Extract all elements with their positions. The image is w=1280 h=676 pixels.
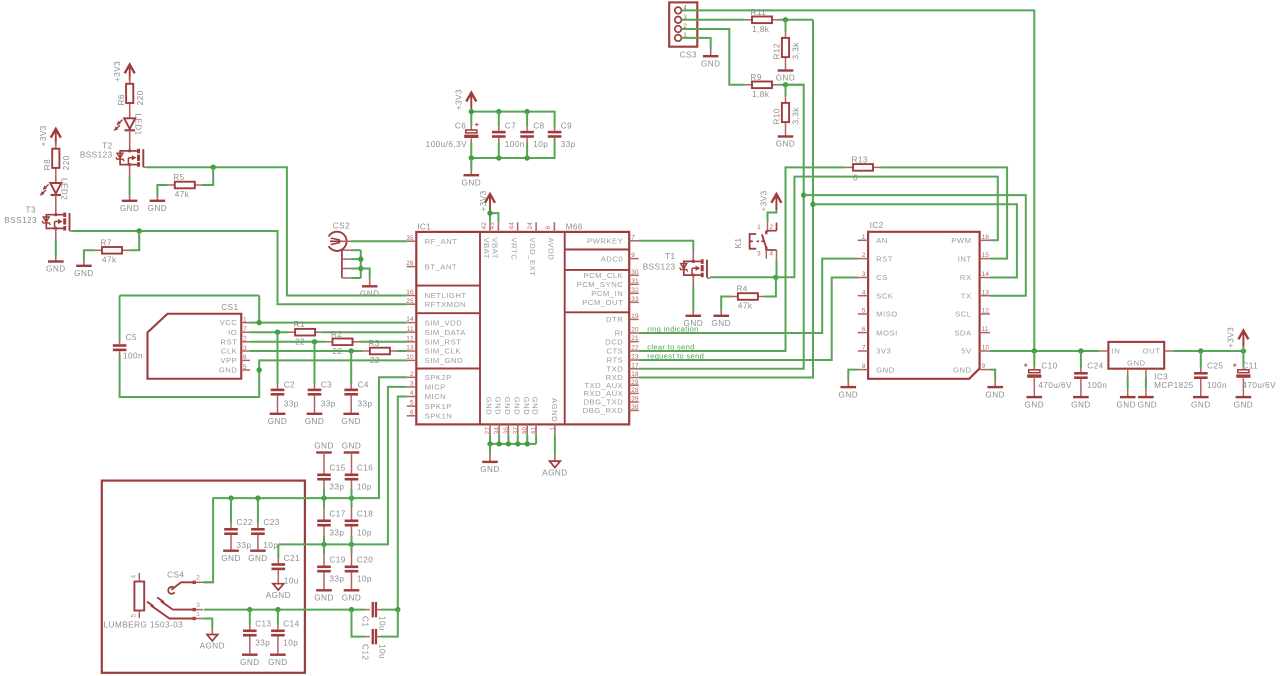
ground [150, 200, 166, 202]
svg-text:GND: GND [360, 290, 380, 299]
svg-text:GND: GND [268, 658, 288, 667]
svg-text:PWRKEY: PWRKEY [587, 237, 623, 246]
svg-text:27: 27 [485, 427, 492, 435]
svg-text:C2: C2 [284, 380, 295, 389]
wire PWRKEY net [639, 241, 694, 251]
svg-text:SIM_CLK: SIM_CLK [425, 347, 462, 356]
svg-text:26: 26 [406, 260, 414, 267]
ground [270, 413, 286, 415]
svg-text:5: 5 [862, 308, 866, 315]
IC1 pin 20 RI [629, 332, 639, 334]
svg-text:GND: GND [480, 465, 500, 474]
svg-text:C13: C13 [255, 620, 271, 629]
wire SIM_RST net [250, 341, 326, 343]
IC2 pin 13 TX [980, 295, 990, 297]
svg-text:C16: C16 [357, 464, 373, 473]
power +3V3 (T3 branch) [55, 131, 57, 145]
svg-text:7: 7 [631, 234, 635, 241]
svg-text:2: 2 [410, 371, 414, 378]
svg-text:4: 4 [131, 575, 138, 579]
IC1 pin 39 DBG_TXD [629, 401, 639, 403]
wire [202, 167, 213, 185]
wire 3V3 output rail [1173, 350, 1243, 352]
svg-text:38: 38 [631, 404, 639, 411]
svg-text:10p: 10p [533, 140, 548, 149]
svg-text:IC2: IC2 [870, 221, 884, 230]
IC1 pin 11 SIM_DATA [407, 331, 417, 333]
svg-text:12: 12 [982, 308, 990, 315]
svg-text:9: 9 [982, 363, 986, 370]
svg-text:INT: INT [958, 254, 972, 263]
svg-text:100n: 100n [1207, 381, 1227, 390]
capacitor C8 10p [526, 112, 528, 127]
svg-text:MCP1825: MCP1825 [1154, 381, 1194, 390]
resistor R12 3,3k [785, 20, 787, 31]
svg-text:GND: GND [1071, 400, 1091, 409]
IC1 pin 25 RFTXMON [407, 303, 417, 305]
svg-text:+3V3: +3V3 [455, 89, 464, 110]
svg-text:GND: GND [1191, 400, 1211, 409]
svg-text:AGND: AGND [266, 591, 291, 600]
svg-text:30: 30 [631, 269, 639, 276]
wire [779, 84, 804, 86]
svg-text:1,8k: 1,8k [752, 25, 770, 34]
IC1 pin 30 PCM_CLK [629, 274, 639, 276]
wire mic line (jack pin 3) [204, 609, 365, 611]
svg-text:T1: T1 [665, 252, 675, 261]
IC1 pin 3 MICP [407, 386, 417, 388]
svg-text:VBAT: VBAT [490, 238, 499, 260]
svg-text:C14: C14 [283, 620, 299, 629]
capacitor C12 10u [352, 610, 366, 637]
svg-text:VPP: VPP [220, 356, 237, 365]
svg-text:IN: IN [1112, 347, 1121, 356]
wire [322, 331, 407, 333]
svg-text:C12: C12 [361, 644, 370, 660]
svg-text:AN: AN [876, 236, 888, 245]
wire [129, 110, 131, 118]
capacitor C4 33p [350, 351, 352, 384]
svg-text:43: 43 [489, 222, 496, 230]
ground [362, 285, 378, 287]
svg-text:10p: 10p [357, 575, 372, 584]
IC1 pin 38 DBG_RXD [629, 409, 639, 411]
svg-text:GND: GND [839, 390, 859, 399]
svg-text:35: 35 [406, 235, 414, 242]
svg-text:GND: GND [342, 442, 362, 451]
junction [137, 228, 142, 233]
ground [223, 550, 239, 552]
wire [55, 228, 57, 239]
svg-text:PCM_CLK: PCM_CLK [583, 271, 623, 280]
svg-text:GND: GND [148, 204, 168, 213]
IC3 IN pin [1099, 350, 1108, 352]
ground [778, 69, 794, 71]
svg-text:+: + [475, 122, 479, 129]
svg-text:33p: 33p [255, 639, 270, 648]
wire RI to IC2 RST [639, 259, 858, 333]
svg-text:33p: 33p [561, 140, 576, 149]
CS4 pin 2 contact [171, 582, 194, 590]
IC1 pin 27 GND [489, 424, 491, 434]
IC IC3 MCP1825 [1108, 342, 1164, 369]
svg-text:1: 1 [757, 224, 761, 231]
svg-text:VDD_EXT: VDD_EXT [528, 238, 537, 277]
wire [55, 175, 57, 183]
CS3 pin 2 [675, 26, 682, 33]
svg-text:C15: C15 [329, 464, 345, 473]
svg-text:220: 220 [62, 155, 71, 170]
svg-text:16: 16 [406, 289, 414, 296]
svg-text:C10: C10 [1041, 362, 1057, 371]
svg-text:33p: 33p [329, 575, 344, 584]
svg-text:IC1: IC1 [417, 222, 431, 231]
svg-text:BSS123: BSS123 [643, 263, 676, 272]
svg-text:RF_ANT: RF_ANT [425, 237, 458, 246]
svg-text:RTS: RTS [607, 356, 624, 365]
svg-text:GND: GND [522, 397, 531, 416]
wire TXD net riser [639, 85, 804, 369]
svg-text:22: 22 [631, 345, 639, 352]
capacitor C20 10p [351, 544, 353, 553]
wire RF_ANT [342, 240, 351, 242]
CS3 pin 1 [675, 35, 682, 42]
svg-text:BSS123: BSS123 [80, 150, 113, 159]
svg-text:7: 7 [862, 345, 866, 352]
svg-text:TX: TX [961, 291, 972, 300]
svg-text:CS3: CS3 [680, 51, 697, 60]
resistor R9 1,8k [745, 84, 752, 86]
svg-text:100n: 100n [123, 351, 143, 360]
svg-text:SIM_GND: SIM_GND [425, 356, 464, 365]
svg-text:7: 7 [243, 326, 247, 333]
IC1 pin 43 VBAT [497, 222, 499, 232]
capacitor C19 33p [323, 544, 325, 553]
IC2 pin 16 PWM [980, 239, 990, 241]
IC1 pin 34 GND [498, 424, 500, 434]
CS3 pin 3 [675, 17, 682, 24]
power +3V3 (IC1 VBAT) [489, 196, 491, 210]
wire CTS net to R13 [639, 167, 846, 351]
svg-text:C8: C8 [533, 122, 544, 131]
CS2 shield pins [341, 250, 343, 278]
svg-text:33p: 33p [358, 399, 373, 408]
agnd symbol [273, 584, 284, 590]
capacitor C21 10u [277, 544, 279, 558]
resistor R6 220 [129, 77, 131, 84]
svg-text:GND: GND [494, 397, 503, 416]
IC1 pin 6 SPK1N [407, 415, 417, 417]
svg-text:SPK1P: SPK1P [425, 402, 452, 411]
svg-text:+3V3: +3V3 [39, 125, 48, 146]
IC2 pin 3 CS [858, 277, 868, 279]
svg-text:+3V3: +3V3 [479, 190, 488, 211]
wire gnd rail [470, 143, 472, 158]
svg-text:28: 28 [631, 387, 639, 394]
svg-text:RFTXMON: RFTXMON [425, 300, 467, 309]
svg-text:PCM_IN: PCM_IN [591, 289, 623, 298]
wire [768, 210, 777, 221]
ground [316, 589, 332, 591]
svg-text:SIM_DATA: SIM_DATA [425, 328, 467, 337]
power +3V3 (T2 branch) [129, 67, 131, 81]
capacitor C11 470u/6V [1242, 351, 1244, 367]
svg-text:10p: 10p [283, 639, 298, 648]
svg-text:14: 14 [982, 271, 990, 278]
svg-text:PCM_SYNC: PCM_SYNC [577, 280, 624, 289]
svg-text:33p: 33p [329, 483, 344, 492]
svg-text:GND: GND [876, 365, 895, 374]
svg-text:SIM_RST: SIM_RST [425, 338, 462, 347]
svg-text:R7: R7 [101, 238, 112, 247]
svg-text:32: 32 [631, 287, 639, 294]
svg-text:3,3k: 3,3k [792, 107, 801, 125]
svg-text:SCL: SCL [955, 310, 972, 319]
svg-text:2: 2 [243, 336, 247, 343]
ground [713, 315, 729, 317]
svg-text:DCD: DCD [605, 337, 623, 346]
power +3V3 (regulator output) [1242, 347, 1244, 352]
wire SIM_DATA net [250, 331, 288, 333]
wire CS3 pin 1 to GND [681, 38, 710, 49]
resistor R5 47k [168, 184, 175, 186]
svg-text:GND: GND [776, 74, 796, 83]
svg-text:+3V3: +3V3 [113, 61, 122, 82]
svg-text:33p: 33p [329, 529, 344, 538]
svg-text:13: 13 [406, 345, 414, 352]
IC3 OUT pin [1164, 350, 1173, 352]
IC1 pin 44 VRTC [517, 222, 519, 232]
IC1 pin 21 DCD [629, 341, 639, 343]
junctions [469, 109, 474, 114]
svg-text:GND: GND [985, 390, 1005, 399]
svg-text:AGND: AGND [200, 642, 225, 651]
svg-text:2: 2 [770, 224, 774, 231]
svg-text:GND: GND [1127, 358, 1146, 367]
svg-text:BSS123: BSS123 [4, 216, 37, 225]
svg-text:47k: 47k [102, 255, 117, 264]
svg-text:4: 4 [770, 250, 774, 257]
svg-text:1: 1 [550, 427, 557, 431]
wire [692, 275, 694, 286]
svg-text:10u: 10u [378, 616, 387, 631]
svg-text:11: 11 [982, 326, 989, 333]
CS1 pin 7 IO [241, 331, 250, 333]
ground [686, 315, 702, 317]
ground (C16) [344, 451, 360, 453]
LED LED2 [50, 183, 61, 194]
IC1 pin 40 GND [526, 424, 528, 434]
CS4 pin 3 contact [161, 601, 194, 609]
wire [157, 185, 167, 196]
IC1 pin 4 MICN [407, 396, 417, 398]
svg-text:GND: GND [512, 397, 521, 416]
svg-text:GND: GND [953, 365, 972, 374]
svg-text:10p: 10p [357, 483, 372, 492]
svg-text:R11: R11 [751, 8, 767, 17]
ground [48, 260, 64, 262]
ground [1073, 396, 1089, 398]
IC2 pin 9 GND [980, 369, 990, 371]
ground [464, 174, 480, 176]
svg-text:SIM_VDD: SIM_VDD [425, 318, 463, 327]
ground [307, 413, 323, 415]
svg-text:GND: GND [776, 140, 796, 149]
svg-text:SPK2P: SPK2P [425, 373, 452, 382]
svg-text:clear to send: clear to send [647, 342, 694, 351]
svg-text:34: 34 [494, 427, 501, 435]
IC1 pin 7 PWRKEY [629, 240, 639, 242]
wire [129, 231, 139, 250]
IC1 pin 24 VDD_EXT [535, 222, 537, 232]
svg-text:17: 17 [631, 362, 639, 369]
transistor T3 BSS123 [46, 215, 56, 229]
svg-text:ADC0: ADC0 [601, 254, 624, 263]
svg-text:29: 29 [631, 379, 639, 386]
capacitor C22 33p [230, 498, 232, 523]
IC2 pin 7 3V3 [858, 350, 868, 352]
svg-text:CS4: CS4 [167, 570, 184, 579]
wire 5V from CS3 pin 4 [681, 10, 1034, 351]
svg-text:18: 18 [631, 371, 639, 378]
svg-text:470u/6V: 470u/6V [1242, 381, 1276, 390]
IC2 pin 6 MOSI [858, 332, 868, 334]
svg-text:R12: R12 [773, 43, 782, 59]
wire [721, 297, 731, 311]
svg-text:3V3: 3V3 [876, 347, 891, 356]
resistor R11 1,8k [745, 19, 752, 21]
svg-text:3: 3 [410, 381, 414, 388]
capacitor C2 33p [277, 332, 279, 384]
wire SPK2P net [204, 377, 407, 582]
svg-text:R2: R2 [331, 330, 342, 339]
IC1 pin 35 RF_ANT [407, 240, 417, 242]
power +3V3 (K1) [775, 196, 777, 210]
svg-text:1: 1 [196, 611, 200, 618]
svg-text:47k: 47k [175, 190, 190, 199]
wire T1 gate [707, 277, 710, 279]
IC2 pin 4 SCK [858, 295, 868, 297]
svg-text:C4: C4 [358, 380, 369, 389]
ground [987, 386, 1003, 388]
svg-text:GND: GND [268, 417, 288, 426]
svg-text:20: 20 [631, 327, 639, 334]
IC1 pin 29 TXD_AUX [629, 384, 639, 386]
IC1 pin 14 SIM_VDD [407, 322, 417, 324]
svg-text:GND: GND [701, 59, 721, 68]
CS3 pin 4 [675, 7, 682, 14]
wire [55, 195, 57, 215]
wire IC2 GND pin 9 [990, 370, 995, 382]
svg-text:R13: R13 [852, 155, 868, 164]
ground [242, 654, 258, 656]
wire [765, 277, 776, 296]
svg-text:BT_ANT: BT_ANT [425, 262, 457, 271]
svg-text:VCC: VCC [220, 318, 238, 327]
svg-text:SPK1N: SPK1N [425, 412, 453, 421]
switch K1 [767, 221, 769, 232]
svg-text:2: 2 [862, 252, 866, 259]
capacitor C25 100n [1200, 351, 1202, 368]
capacitor C9 33p [554, 128, 556, 131]
wire 5V rail [990, 350, 1099, 352]
capacitor C14 10p [277, 610, 279, 625]
IC1 pin 16 NETLIGHT [407, 295, 417, 297]
svg-text:220: 220 [136, 90, 145, 105]
svg-text:CS1: CS1 [221, 303, 238, 312]
wire CS3 pin 3 to R11 [681, 19, 745, 21]
svg-text:TXD: TXD [606, 365, 623, 374]
svg-text:10u: 10u [378, 644, 387, 659]
svg-text:C3: C3 [321, 380, 332, 389]
svg-text:11: 11 [407, 326, 414, 333]
svg-text:5: 5 [243, 364, 247, 371]
ground [1120, 396, 1136, 398]
svg-text:request to send: request to send [647, 351, 704, 360]
svg-text:VBAT: VBAT [482, 238, 491, 260]
svg-text:GND: GND [314, 594, 334, 603]
IC1 pin 12 SIM_RST [407, 341, 417, 343]
svg-text:47k: 47k [738, 302, 753, 311]
svg-text:5: 5 [131, 614, 138, 618]
svg-text:+3V3: +3V3 [1227, 327, 1236, 348]
svg-text:10p: 10p [357, 529, 372, 538]
svg-text:R1: R1 [294, 320, 305, 329]
IC1 pin 23 RTS [629, 359, 639, 361]
ground [778, 135, 794, 137]
CS1 pin 3 CLK [241, 350, 250, 352]
svg-text:GND: GND [74, 269, 94, 278]
svg-text:3: 3 [757, 250, 761, 257]
junction [211, 165, 216, 170]
svg-text:C23: C23 [263, 518, 279, 527]
resistor R4 47k [731, 296, 738, 298]
IC2 pin 12 SCL [980, 313, 990, 315]
svg-text:AGND: AGND [550, 398, 559, 422]
svg-text:C1: C1 [361, 616, 370, 627]
svg-text:6: 6 [410, 409, 414, 416]
svg-text:T3: T3 [26, 205, 36, 214]
ground [841, 386, 857, 388]
svg-text:CLK: CLK [221, 347, 238, 356]
svg-text:R9: R9 [751, 73, 762, 82]
IC2 pin 1 AN [858, 239, 868, 241]
junction [810, 202, 815, 207]
svg-text:9: 9 [631, 252, 635, 259]
svg-text:4: 4 [862, 289, 866, 296]
svg-text:39: 39 [631, 396, 639, 403]
ground (C15) [316, 451, 332, 453]
IC1 pin 37 GND [517, 424, 519, 434]
IC2 pin 8 GND [858, 369, 868, 371]
IC1 pin 41 GND [535, 424, 537, 434]
capacitor C24 100n [1080, 351, 1082, 368]
svg-text:GND: GND [46, 265, 66, 274]
svg-text:C6: C6 [455, 122, 466, 131]
IC1 pin 5 SPK1P [407, 405, 417, 407]
IC IC2 [868, 232, 980, 379]
svg-text:100u/6,3V: 100u/6,3V [426, 140, 467, 149]
svg-text:24: 24 [527, 222, 534, 230]
capacitor C23 10p [257, 498, 259, 523]
wire MICP net [278, 387, 407, 545]
svg-text:10: 10 [982, 345, 990, 352]
IC1 pin 13 SIM_CLK [407, 350, 417, 352]
svg-text:C9: C9 [561, 122, 572, 131]
svg-text:AVDD: AVDD [546, 238, 555, 261]
capacitor C13 33p [249, 610, 251, 625]
svg-text:RST: RST [876, 254, 893, 263]
